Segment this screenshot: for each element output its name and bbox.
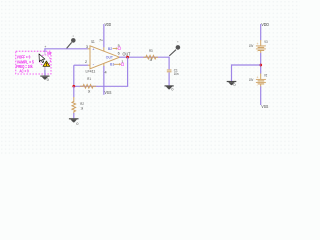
ground 0 under C1 (165, 85, 175, 91)
wire source top vertical (44, 48, 46, 52)
svg-text:LF411: LF411 (86, 69, 97, 74)
wire R2 top (73, 86, 75, 97)
svg-text:-: - (257, 83, 258, 87)
resistor R3 (143, 48, 158, 62)
svg-text:OUT: OUT (106, 54, 114, 59)
wire V2 to VSS (260, 86, 262, 105)
svg-text:VDD: VDD (105, 22, 112, 27)
svg-text:1k: 1k (149, 57, 152, 62)
svg-text:15V: 15V (249, 77, 254, 82)
wire inverting input horizontal (74, 64, 88, 66)
svg-text:+: + (257, 42, 259, 46)
op-amp U1 LF411 (85, 39, 124, 95)
mouse cursor (39, 54, 45, 63)
source V6 body (selected, dashed circle) (40, 55, 51, 66)
svg-text:2: 2 (85, 60, 87, 64)
body triangle (90, 46, 120, 69)
unconnected pin box (pin 1) (121, 63, 123, 66)
power symbol VDD (left rail) (104, 22, 111, 47)
ground 0 under source (40, 76, 49, 83)
wire feedback horizontal (74, 85, 128, 87)
svg-text:R3: R3 (149, 48, 153, 53)
svg-text:V6: V6 (47, 51, 51, 56)
probe marker P2 (169, 41, 180, 56)
svg-text:6: 6 (118, 51, 120, 55)
svg-text:U1: U1 (91, 39, 95, 44)
B1 pin stub (pin 1) (114, 63, 120, 65)
source V6 selection box (dashed) (16, 51, 51, 74)
wire output corner down to C1 (168, 57, 170, 70)
junction at supply midpoint (259, 64, 262, 67)
capacitor C1 (167, 68, 179, 77)
ground 0 right (227, 81, 237, 87)
V- pin stub (103, 63, 105, 66)
svg-text:VSS: VSS (105, 90, 112, 95)
svg-text:VDD: VDD (261, 22, 269, 27)
svg-text:V3: V3 (264, 39, 268, 44)
source V3 15V (249, 39, 268, 54)
wire ground corner vertical (231, 64, 233, 81)
wire C1 bottom (168, 72, 170, 85)
svg-text:10n: 10n (174, 71, 179, 76)
junction at output node (126, 56, 129, 59)
ground 0 under R2 (69, 118, 79, 126)
wire inverting input vertical (73, 65, 75, 86)
pin 3 stub (88, 48, 91, 50)
source V2 15V (249, 72, 268, 87)
junction at inverting node (72, 85, 75, 88)
warning badge on source (43, 61, 50, 66)
svg-text:+: + (257, 76, 259, 80)
svg-text:AC = 0: AC = 0 (19, 69, 29, 74)
svg-text:R1: R1 (87, 76, 91, 81)
svg-text:3: 3 (86, 45, 88, 49)
wire midpoint to ground corner (232, 64, 261, 66)
wire source top to op-amp pin 3 (45, 48, 88, 50)
source V6 property text (16, 55, 34, 74)
pin 2 stub (88, 64, 91, 66)
source V6 top pin (44, 52, 46, 55)
source V6 bottom pin (44, 66, 46, 71)
wire R2 bottom (73, 113, 75, 118)
wire op-amp output (119, 56, 169, 58)
svg-text:OUT: OUT (123, 51, 131, 56)
svg-text:+: + (44, 45, 46, 49)
svg-text:7+: 7+ (99, 39, 103, 43)
wire source bottom to ground (44, 70, 46, 76)
svg-text:V2: V2 (264, 72, 268, 77)
unconnected pin box (pin 5) (118, 47, 120, 50)
V+ pin wire from VDD (103, 47, 105, 51)
svg-text:VSS: VSS (261, 104, 268, 109)
svg-text:-: - (257, 50, 258, 54)
svg-text:1k: 1k (88, 88, 91, 93)
wire V3 to V2 (260, 53, 262, 74)
probe marker P1 (67, 35, 76, 48)
svg-text:15V: 15V (249, 43, 254, 48)
svg-text:4: 4 (105, 70, 107, 74)
svg-text:B2: B2 (108, 46, 112, 51)
B2 pin stub (pin 5) (113, 48, 117, 50)
wire V- to VSS (103, 66, 105, 95)
resistor R2 (72, 97, 84, 114)
power symbol VDD (right rail) (261, 22, 269, 40)
resistor R1 (80, 76, 96, 93)
svg-text:1k: 1k (81, 105, 84, 110)
wire feedback vertical (127, 57, 129, 86)
